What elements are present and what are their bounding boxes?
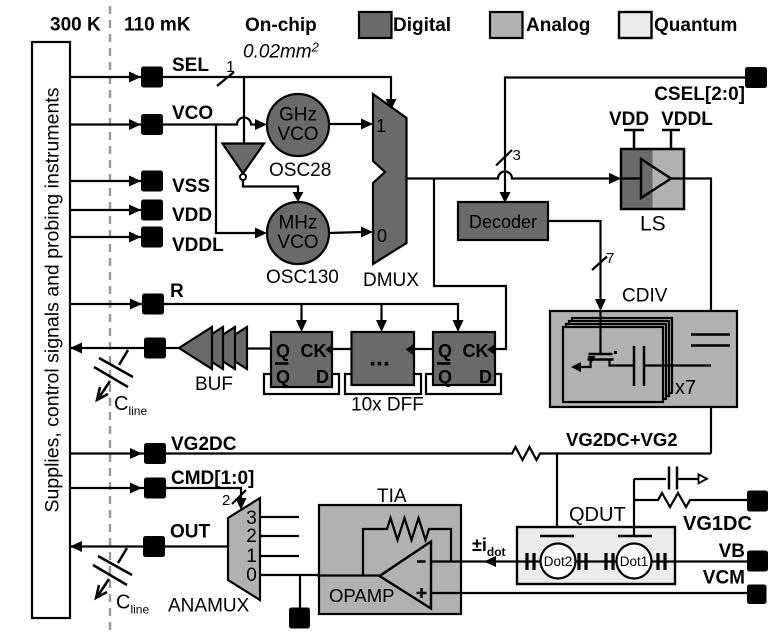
svg-text:OPAMP: OPAMP: [329, 585, 394, 606]
svg-text:Quantum: Quantum: [654, 15, 737, 36]
svg-text:1: 1: [246, 546, 257, 567]
svg-text:TIA: TIA: [377, 486, 407, 507]
svg-text:2: 2: [222, 492, 230, 509]
svg-text:ANAMUX: ANAMUX: [168, 596, 250, 617]
svg-text:On-chip: On-chip: [245, 15, 317, 36]
svg-text:QDUT: QDUT: [569, 504, 626, 526]
svg-text:VG1DC: VG1DC: [683, 513, 752, 535]
svg-text:CMD[1:0]: CMD[1:0]: [171, 468, 254, 489]
svg-text:300 K: 300 K: [50, 15, 101, 36]
svg-text:1: 1: [376, 116, 386, 136]
svg-text:10x DFF: 10x DFF: [351, 395, 424, 416]
svg-text:VSS: VSS: [172, 176, 210, 197]
svg-text:VDD: VDD: [172, 205, 212, 226]
svg-text:VG2DC+VG2: VG2DC+VG2: [566, 429, 678, 450]
svg-text:Decoder: Decoder: [469, 212, 537, 232]
svg-text:VDDL: VDDL: [661, 109, 713, 130]
svg-text:3: 3: [513, 147, 521, 164]
svg-text:0: 0: [377, 226, 387, 246]
svg-text:110 mK: 110 mK: [124, 15, 191, 36]
svg-text:VCO: VCO: [277, 232, 318, 253]
svg-text:D: D: [316, 367, 329, 387]
svg-text:CK: CK: [463, 341, 489, 361]
svg-text:VB: VB: [719, 541, 745, 562]
svg-text:GHz: GHz: [279, 105, 317, 126]
svg-text:R: R: [170, 281, 184, 302]
svg-text:Q: Q: [438, 341, 452, 361]
svg-text:Digital: Digital: [393, 15, 451, 36]
svg-text:VCO: VCO: [277, 124, 318, 145]
svg-text:0: 0: [246, 565, 257, 586]
svg-text:Analog: Analog: [526, 15, 590, 36]
svg-text:0.02mm2: 0.02mm2: [243, 40, 320, 63]
svg-text:CDIV: CDIV: [622, 286, 668, 307]
svg-text:CSEL[2:0]: CSEL[2:0]: [654, 84, 745, 105]
svg-text:VDD: VDD: [609, 109, 649, 130]
svg-text:Q: Q: [438, 367, 452, 387]
svg-text:Dot2: Dot2: [544, 554, 573, 569]
svg-text:OUT: OUT: [170, 522, 211, 543]
svg-text:VCO: VCO: [172, 103, 213, 124]
svg-text:7: 7: [606, 250, 614, 267]
svg-text:2: 2: [246, 526, 257, 547]
svg-text:DMUX: DMUX: [363, 270, 419, 291]
svg-text:Supplies, control signals and: Supplies, control signals and probing in…: [42, 87, 64, 512]
svg-text:LS: LS: [640, 213, 666, 236]
svg-text:VCM: VCM: [703, 568, 745, 589]
svg-text:...: ...: [369, 344, 390, 372]
svg-text:1: 1: [226, 59, 235, 76]
svg-text:OSC130: OSC130: [266, 267, 339, 288]
svg-text:MHz: MHz: [278, 213, 317, 234]
svg-text:D: D: [479, 367, 492, 387]
svg-text:Q: Q: [276, 367, 290, 387]
svg-text:CK: CK: [301, 341, 327, 361]
svg-text:OSC28: OSC28: [269, 160, 331, 181]
svg-text:Dot1: Dot1: [620, 554, 649, 569]
svg-text:SEL: SEL: [172, 55, 209, 76]
svg-text:VDDL: VDDL: [172, 235, 224, 256]
svg-text:x7: x7: [675, 377, 696, 399]
svg-text:Q: Q: [276, 341, 290, 361]
svg-text:BUF: BUF: [195, 374, 233, 395]
svg-text:VG2DC: VG2DC: [171, 434, 237, 455]
